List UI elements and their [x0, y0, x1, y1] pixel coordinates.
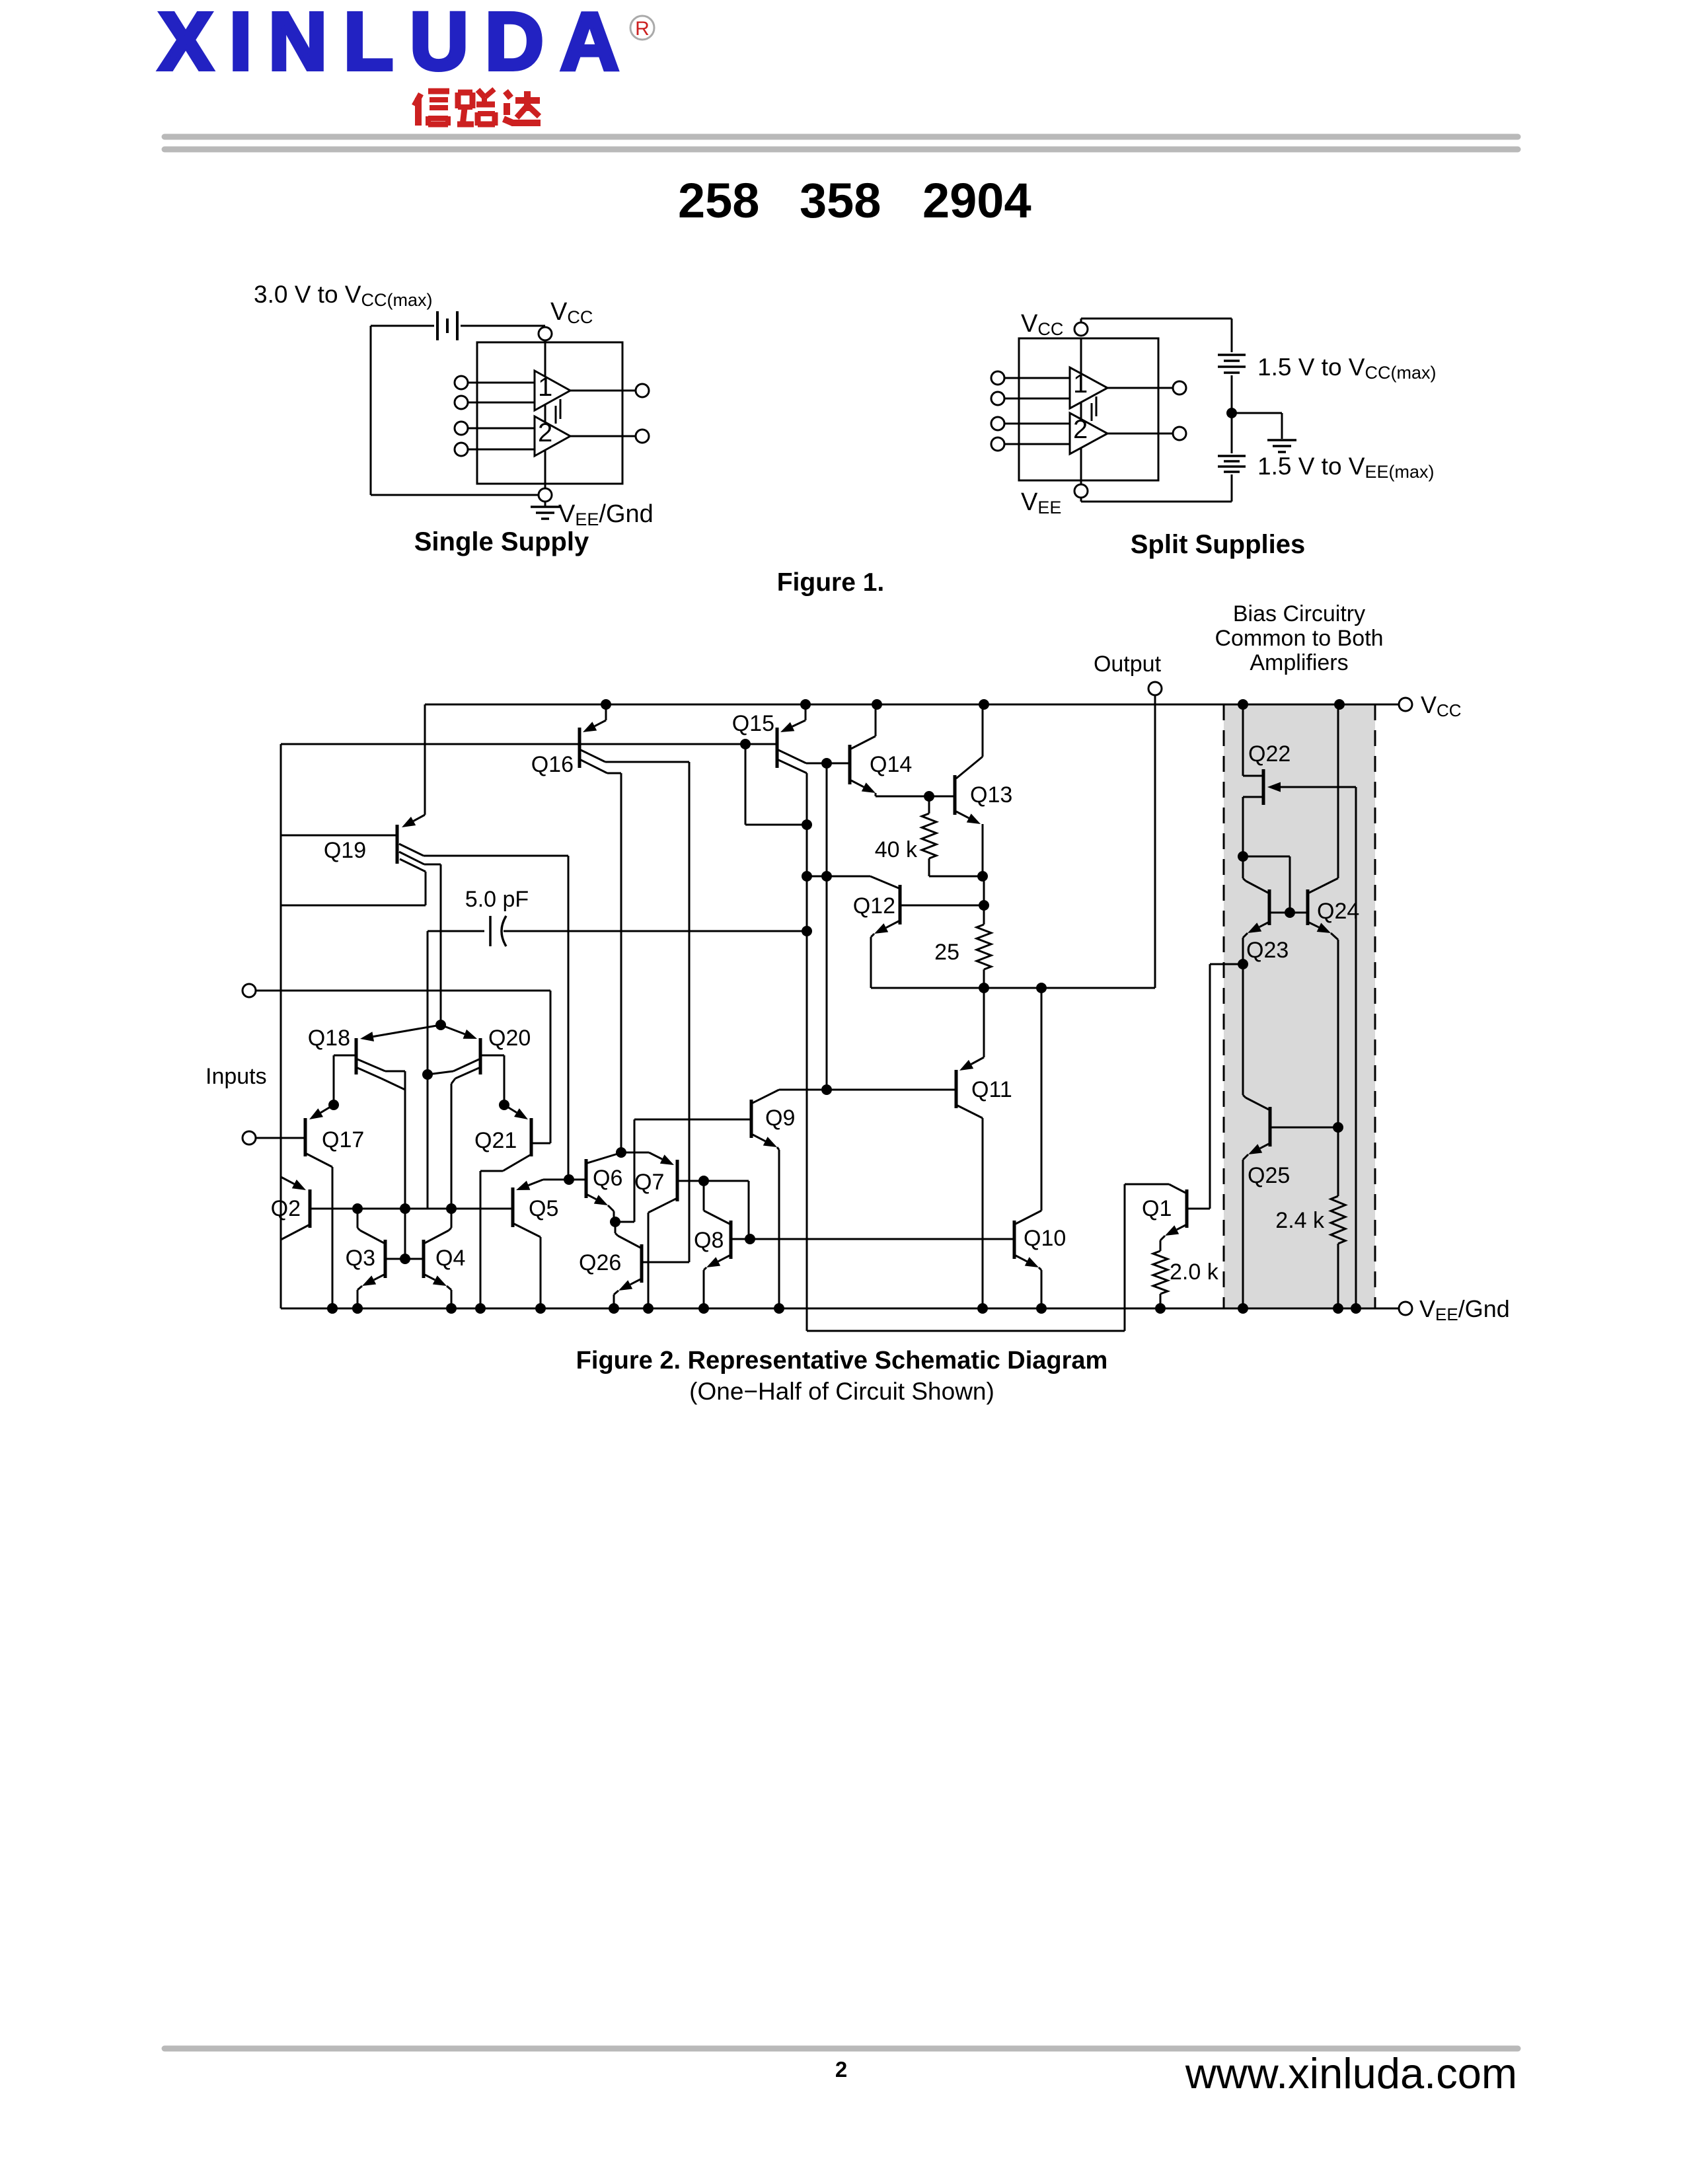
svg-text:Q15: Q15 — [732, 711, 774, 736]
output wire 2 single supply — [570, 435, 636, 437]
battery B1 single supply — [371, 325, 434, 327]
svg-text:Single Supply: Single Supply — [414, 527, 589, 556]
node dot Q13 emitter — [977, 871, 988, 882]
wire Q18 base stub — [334, 1055, 356, 1057]
transistor Q24 — [1306, 889, 1310, 925]
wire VEE rail — [281, 1308, 1399, 1310]
wire x1251 column — [826, 763, 828, 1090]
svg-text:VCC: VCC — [1421, 691, 1462, 720]
svg-text:2.4 k: 2.4 k — [1275, 1208, 1325, 1233]
wire junction to battery 2 — [1231, 413, 1233, 453]
transistor Q11 — [955, 1070, 958, 1108]
node dot Q6 emitter junction — [610, 1217, 620, 1227]
output terminal 1 split supplies — [1173, 381, 1186, 395]
wire Q21 emitter — [504, 1105, 517, 1113]
power rail inside package — [544, 340, 546, 488]
wire Q18 collector 1 — [357, 1059, 385, 1071]
svg-text:2: 2 — [835, 2057, 847, 2082]
transistor Q25 — [1269, 1107, 1272, 1147]
node dot Q22 collector — [1238, 851, 1248, 862]
node dot x1251 y1326 — [821, 871, 832, 882]
wire Q14 emitter — [851, 780, 864, 787]
svg-text:Q23: Q23 — [1246, 938, 1289, 963]
node dot Q6 base — [564, 1174, 574, 1185]
svg-text:Q4: Q4 — [435, 1246, 465, 1271]
wire Q13 emitter — [956, 811, 969, 818]
wire Q20 emitter — [441, 1025, 465, 1034]
output terminal 2 split supplies — [1173, 427, 1186, 440]
transistor Q7 — [676, 1160, 679, 1201]
battery B2 1.5V VCC — [1218, 354, 1246, 356]
node dot Q4 emitter at rail — [446, 1303, 457, 1314]
svg-text:Q25: Q25 — [1248, 1163, 1290, 1188]
svg-text:40 k: 40 k — [875, 837, 918, 862]
wire Q16 collector 1 — [581, 750, 605, 762]
wire left spine x425 — [280, 744, 282, 1308]
wire base-rail drop to Q15 collector — [745, 744, 747, 825]
svg-text:Q10: Q10 — [1024, 1226, 1066, 1251]
svg-text:Q8: Q8 — [694, 1228, 724, 1253]
output wire 1 single supply — [570, 390, 636, 392]
output wire 2 split supplies — [1107, 433, 1173, 435]
output wire 1 split supplies — [1107, 387, 1173, 389]
wire x1221 column — [806, 825, 808, 1331]
node dot Q9 emitter at rail — [774, 1303, 784, 1314]
node dot Q17 collector at rail — [327, 1303, 338, 1314]
svg-text:VCC: VCC — [1021, 310, 1063, 339]
wire Q9 base — [634, 1119, 751, 1121]
wire Q15 collector 2 — [778, 760, 807, 773]
node dot Q21 collector at rail — [475, 1303, 486, 1314]
svg-text:25: 25 — [934, 940, 959, 965]
node dot Q25 emitter at rail — [1238, 1303, 1248, 1314]
wire output net y1495 — [871, 987, 1155, 989]
transistor Q14 — [848, 745, 852, 784]
wire cap left drop x647 — [427, 931, 429, 1209]
node dot Q7 collector at rail — [643, 1303, 654, 1314]
node dot Q21 base feed — [499, 1100, 509, 1110]
input terminals split supplies — [991, 371, 1004, 385]
wire Q22 collector — [1243, 796, 1263, 798]
input terminals single supply — [455, 376, 468, 389]
wire Q19 collector 2 — [399, 852, 424, 864]
node dot Q3 Q4 base — [400, 1254, 410, 1264]
wire Q22 emitter from VCC — [1242, 704, 1244, 776]
transistor Q4 — [422, 1240, 426, 1278]
input wires split supplies — [1004, 377, 1070, 379]
wire Q10 emitter — [1016, 1256, 1027, 1261]
svg-text:Q6: Q6 — [593, 1166, 622, 1191]
wire x940 column — [620, 773, 622, 1152]
wire Q11 emitter — [983, 988, 985, 1057]
wire Q7 emitter — [621, 1152, 649, 1154]
svg-text:Q12: Q12 — [853, 893, 895, 919]
wire y1326 link — [807, 876, 870, 878]
svg-text:R: R — [635, 18, 650, 40]
wire Q10 collector — [1016, 1211, 1041, 1224]
transistor Q21 — [530, 1118, 533, 1156]
capacitor C1 5.0 pF — [428, 930, 484, 932]
svg-text:Q7: Q7 — [634, 1170, 664, 1195]
node dot Q8 collector — [698, 1176, 709, 1186]
input wires single supply — [468, 382, 535, 384]
wire Q6 base — [569, 1179, 586, 1181]
transistor Q10 — [1013, 1221, 1016, 1259]
terminal VCC split supplies — [1074, 322, 1088, 336]
wire Q13 collector — [956, 757, 983, 778]
node dot 40k top — [924, 791, 934, 802]
svg-text:Q22: Q22 — [1248, 741, 1291, 767]
svg-text:1.5 V to VEE(max): 1.5 V to VEE(max) — [1257, 453, 1435, 482]
wire Q20 collector 2 — [455, 1068, 479, 1078]
svg-text:VEE: VEE — [1021, 488, 1061, 517]
wire Q21 base input — [256, 990, 550, 992]
node dot Q6 collector — [616, 1147, 626, 1158]
op-amp 2 split supplies — [1070, 413, 1107, 454]
transistor Q13 — [954, 775, 957, 815]
wire Q12 emitter — [886, 921, 899, 928]
transistor Q15 — [776, 728, 779, 768]
wire Q14 emitter to Q13 base — [929, 796, 955, 798]
svg-text:Q19: Q19 — [324, 838, 366, 863]
node dot 2.0k at rail — [1155, 1303, 1166, 1314]
wire Q24 emitter — [1309, 923, 1319, 927]
node dot Q8 base — [745, 1234, 755, 1244]
wire Q14 collector — [851, 736, 876, 749]
bias region dashed border left — [1223, 704, 1225, 1308]
wire Q26 collector — [618, 1236, 640, 1248]
wire single-supply loop — [370, 326, 372, 495]
svg-text:Q24: Q24 — [1317, 899, 1359, 924]
node dot 2.4k at rail — [1333, 1303, 1343, 1314]
svg-text:1.5 V to VCC(max): 1.5 V to VCC(max) — [1257, 354, 1437, 383]
wire Q2 collector — [281, 1225, 309, 1240]
wire Q26 base — [642, 1261, 689, 1263]
transistor Q23 — [1268, 889, 1271, 925]
node dot Q11 base — [821, 1084, 832, 1095]
wire Q11 base — [779, 1089, 956, 1091]
wire Q2 emitter — [281, 1177, 294, 1184]
transistor Q20 — [479, 1038, 482, 1074]
transistor Q19 — [396, 825, 399, 864]
wire VCC rail — [425, 704, 1399, 706]
node dot input pair emitter feed — [435, 1020, 446, 1030]
power rail inside package split — [1080, 338, 1082, 484]
wire battery 2 to VEE terminal — [1231, 474, 1233, 502]
svg-text:Q17: Q17 — [322, 1127, 364, 1152]
svg-text:www.xinluda.com: www.xinluda.com — [1185, 2049, 1517, 2097]
resistor R3 2.0 k — [1153, 1251, 1168, 1294]
svg-text:Split Supplies: Split Supplies — [1131, 530, 1305, 559]
svg-text:2.0 k: 2.0 k — [1170, 1260, 1219, 1285]
svg-text:Bias Circuitry: Bias Circuitry — [1233, 601, 1365, 626]
svg-text:2904: 2904 — [922, 173, 1031, 228]
output terminal 1 single supply — [636, 384, 649, 397]
svg-text:Q3: Q3 — [346, 1246, 375, 1271]
wire Q11 collector — [957, 1106, 983, 1118]
wire Q4 emitter — [425, 1275, 435, 1280]
wire Q18 collector 2 — [357, 1068, 381, 1078]
wire Q22 base with arrow — [1281, 786, 1356, 788]
wire Q19 collector 3 — [400, 859, 426, 872]
node dot Q26 emitter at rail — [609, 1303, 619, 1314]
wire Q1 emitter — [1177, 1225, 1185, 1230]
op-amp 2 single supply — [535, 416, 570, 456]
wire Q17 base input — [256, 1137, 305, 1139]
terminal VEE/Gnd — [1399, 1302, 1412, 1315]
wire Q1 collector — [1169, 1184, 1185, 1193]
node dot Q3 emitter at rail — [352, 1303, 363, 1314]
wire x613 column — [404, 1071, 406, 1259]
resistor R1 40 k — [928, 796, 930, 813]
wire Q25 collector — [1246, 1098, 1269, 1110]
transistor Q22 — [1262, 769, 1265, 805]
svg-text:Q26: Q26 — [579, 1250, 621, 1275]
wire Q8 Q10 base link y1875 — [731, 1238, 1014, 1240]
bias region dashed border right — [1374, 704, 1376, 1308]
resistor R2 25 — [983, 876, 985, 924]
wire Q23 Q24 base link — [1269, 912, 1308, 914]
node dot Q22 base line at rail — [1351, 1303, 1361, 1314]
svg-text:Q18: Q18 — [308, 1026, 350, 1051]
transistor Q17 — [304, 1118, 307, 1156]
node dots on VCC rail — [601, 699, 611, 710]
node dot Q11 collector at rail — [977, 1303, 988, 1314]
svg-text:Amplifiers: Amplifiers — [1250, 650, 1348, 675]
svg-text:3.0 V to VCC(max): 3.0 V to VCC(max) — [254, 281, 433, 310]
wire battery to junction — [1231, 375, 1233, 413]
svg-text:Q1: Q1 — [1142, 1196, 1172, 1221]
svg-text:358: 358 — [800, 173, 881, 228]
wire Q20 collector 1 — [453, 1059, 479, 1071]
svg-text:258: 258 — [678, 173, 759, 228]
transistor Q2 — [309, 1189, 312, 1228]
svg-text:Q9: Q9 — [765, 1106, 795, 1131]
svg-text:Output: Output — [1094, 652, 1162, 677]
wire Q20 base stub — [480, 1055, 504, 1057]
svg-text:(One−Half of Circuit Shown): (One−Half of Circuit Shown) — [689, 1378, 994, 1405]
resistor R4 2.4 k — [1337, 1127, 1339, 1196]
terminal Output — [1148, 682, 1162, 695]
wire Q4 collector — [425, 1230, 449, 1243]
wire Q25 base — [1270, 1127, 1338, 1129]
svg-text:VCC: VCC — [550, 298, 593, 327]
wire junction to ground — [1232, 412, 1282, 414]
wire Q19 collector 1 — [399, 844, 424, 856]
wire Q15 collector 1 — [778, 750, 806, 763]
svg-text:Figure 1.: Figure 1. — [777, 568, 885, 597]
svg-text:Q20: Q20 — [488, 1026, 531, 1051]
wire VCC to battery split supplies — [1080, 319, 1082, 322]
wire Q7 collector — [648, 1199, 676, 1213]
ground symbol single supply — [544, 502, 546, 507]
svg-text:Q14: Q14 — [870, 752, 912, 777]
terminal VCC single supply — [539, 327, 552, 340]
svg-text:2: 2 — [1073, 415, 1088, 444]
wire Q16 collector 2 — [581, 760, 607, 773]
IC package box single supply — [477, 342, 622, 484]
svg-text:Inputs: Inputs — [206, 1064, 267, 1089]
transistor Q5 — [511, 1187, 515, 1227]
wire Q5 emitter — [543, 1179, 569, 1181]
transistor Q9 — [750, 1100, 753, 1138]
svg-text:Common to Both: Common to Both — [1215, 626, 1383, 651]
svg-text:1: 1 — [1073, 369, 1088, 398]
wire Q26 emitter — [630, 1279, 640, 1285]
node dot Q12 base — [979, 900, 989, 911]
wire Q5 collector — [514, 1224, 541, 1237]
svg-text:VEE/Gnd: VEE/Gnd — [1419, 1295, 1510, 1324]
wire Q6 collector — [587, 1153, 620, 1163]
footer rule — [165, 2046, 1518, 2052]
op-amp supply stubs split supplies — [1091, 403, 1093, 421]
terminal VEE/Gnd single supply — [539, 488, 552, 502]
node dot Q15 to Q14 — [821, 758, 832, 769]
node dot Q8 emitter at rail — [698, 1303, 709, 1314]
transistor Q26 — [640, 1244, 644, 1283]
wire Q3 emitter — [374, 1275, 384, 1280]
bias circuitry shaded region — [1224, 704, 1375, 1308]
node dot base rail — [740, 739, 751, 749]
wire Q7 base — [677, 1180, 704, 1182]
node dots VEE rail remaining — [327, 1303, 338, 1314]
svg-text:Q5: Q5 — [529, 1196, 558, 1221]
op-amp 1 single supply — [535, 371, 570, 410]
wire Q8 collector — [704, 1211, 730, 1224]
terminal VEE split supplies — [1074, 484, 1088, 498]
wire Q16 Q15 base rail y1126 — [281, 743, 777, 745]
wire Q25 emitter — [1260, 1144, 1269, 1148]
wire Q8 collector-base loop — [704, 1180, 749, 1182]
terminal VCC — [1399, 698, 1412, 711]
junction dot split supplies — [1226, 408, 1237, 418]
wire Q1 base — [1187, 1208, 1210, 1210]
transistor Q16 — [578, 728, 581, 768]
op-amp supply stubs single supply — [555, 406, 557, 424]
wire Q23 collector — [1246, 881, 1268, 893]
svg-text:Figure 2. Representative Schem: Figure 2. Representative Schematic Diagr… — [576, 1347, 1108, 1374]
node dots x1221 — [802, 871, 812, 882]
terminal input non-inverting — [243, 984, 256, 997]
svg-text:VEE/Gnd: VEE/Gnd — [558, 500, 654, 529]
wire Q22 collector to Q23 Q24 base — [1243, 856, 1290, 858]
svg-text:5.0 pF: 5.0 pF — [465, 887, 529, 912]
svg-text:Q11: Q11 — [971, 1077, 1012, 1102]
logo chinese characters 信路达 — [414, 94, 421, 106]
wire Q6 emitter to Q9 base column — [615, 1221, 634, 1223]
ground symbol split supplies — [1267, 439, 1296, 441]
wire Q3 collector — [360, 1230, 384, 1243]
node dot Q25 base junction — [1333, 1122, 1343, 1133]
wire Q12 collector — [870, 876, 899, 888]
wire Q6 emitter — [587, 1195, 596, 1199]
wire Q17 collector — [307, 1154, 332, 1167]
node dot Q23 emitter junction — [1238, 959, 1248, 969]
transistor Q6 — [585, 1159, 588, 1198]
svg-text:Q21: Q21 — [474, 1128, 517, 1153]
svg-text:XINLUDA: XINLUDA — [159, 0, 636, 87]
wire Q9 emitter — [753, 1135, 765, 1141]
svg-text:Q13: Q13 — [970, 782, 1012, 808]
svg-text:Q2: Q2 — [271, 1196, 301, 1221]
wire Q2 Q5 base link y1829 — [310, 1208, 513, 1210]
transistor Q1 — [1185, 1189, 1189, 1228]
IC package box split supplies — [1019, 338, 1158, 480]
node dot Q23 Q24 base — [1285, 907, 1295, 918]
wire Q18 emitter — [373, 1025, 441, 1037]
node dot Q15 collector join — [802, 819, 812, 830]
svg-text:Q16: Q16 — [531, 752, 574, 777]
wire Q9 collector — [753, 1090, 779, 1103]
wire Q12 base — [900, 905, 984, 907]
transistor Q3 — [384, 1240, 387, 1278]
node dot Q5 collector at rail — [535, 1303, 546, 1314]
battery B3 1.5V VEE — [1218, 455, 1246, 457]
wire Q8 emitter — [718, 1256, 730, 1261]
svg-text:1: 1 — [538, 373, 552, 402]
header double rule — [165, 134, 1518, 140]
wire Q24 collector — [1309, 878, 1338, 893]
node dot Q10 emitter at rail — [1036, 1303, 1047, 1314]
node dot Q17 base feed — [328, 1100, 339, 1110]
node dots output net — [979, 983, 989, 993]
wire output drop — [1154, 695, 1156, 988]
logo registered trademark symbol — [630, 16, 654, 40]
terminal input inverting — [243, 1131, 256, 1145]
op-amp 1 split supplies — [1070, 367, 1107, 408]
wire Q21 collector — [503, 1155, 530, 1171]
transistor Q18 — [355, 1038, 358, 1074]
wire Q23 emitter — [1259, 923, 1268, 927]
wire Q3 Q4 base link — [385, 1258, 424, 1260]
node dot x647 Q20 collector tap — [422, 1069, 433, 1080]
transistor Q8 — [730, 1221, 733, 1259]
wire Q17 emitter — [320, 1105, 334, 1113]
svg-text:2: 2 — [538, 418, 552, 447]
transistor Q12 — [899, 885, 902, 924]
output terminal 2 single supply — [636, 430, 649, 443]
node dots on y1829 — [352, 1203, 363, 1214]
